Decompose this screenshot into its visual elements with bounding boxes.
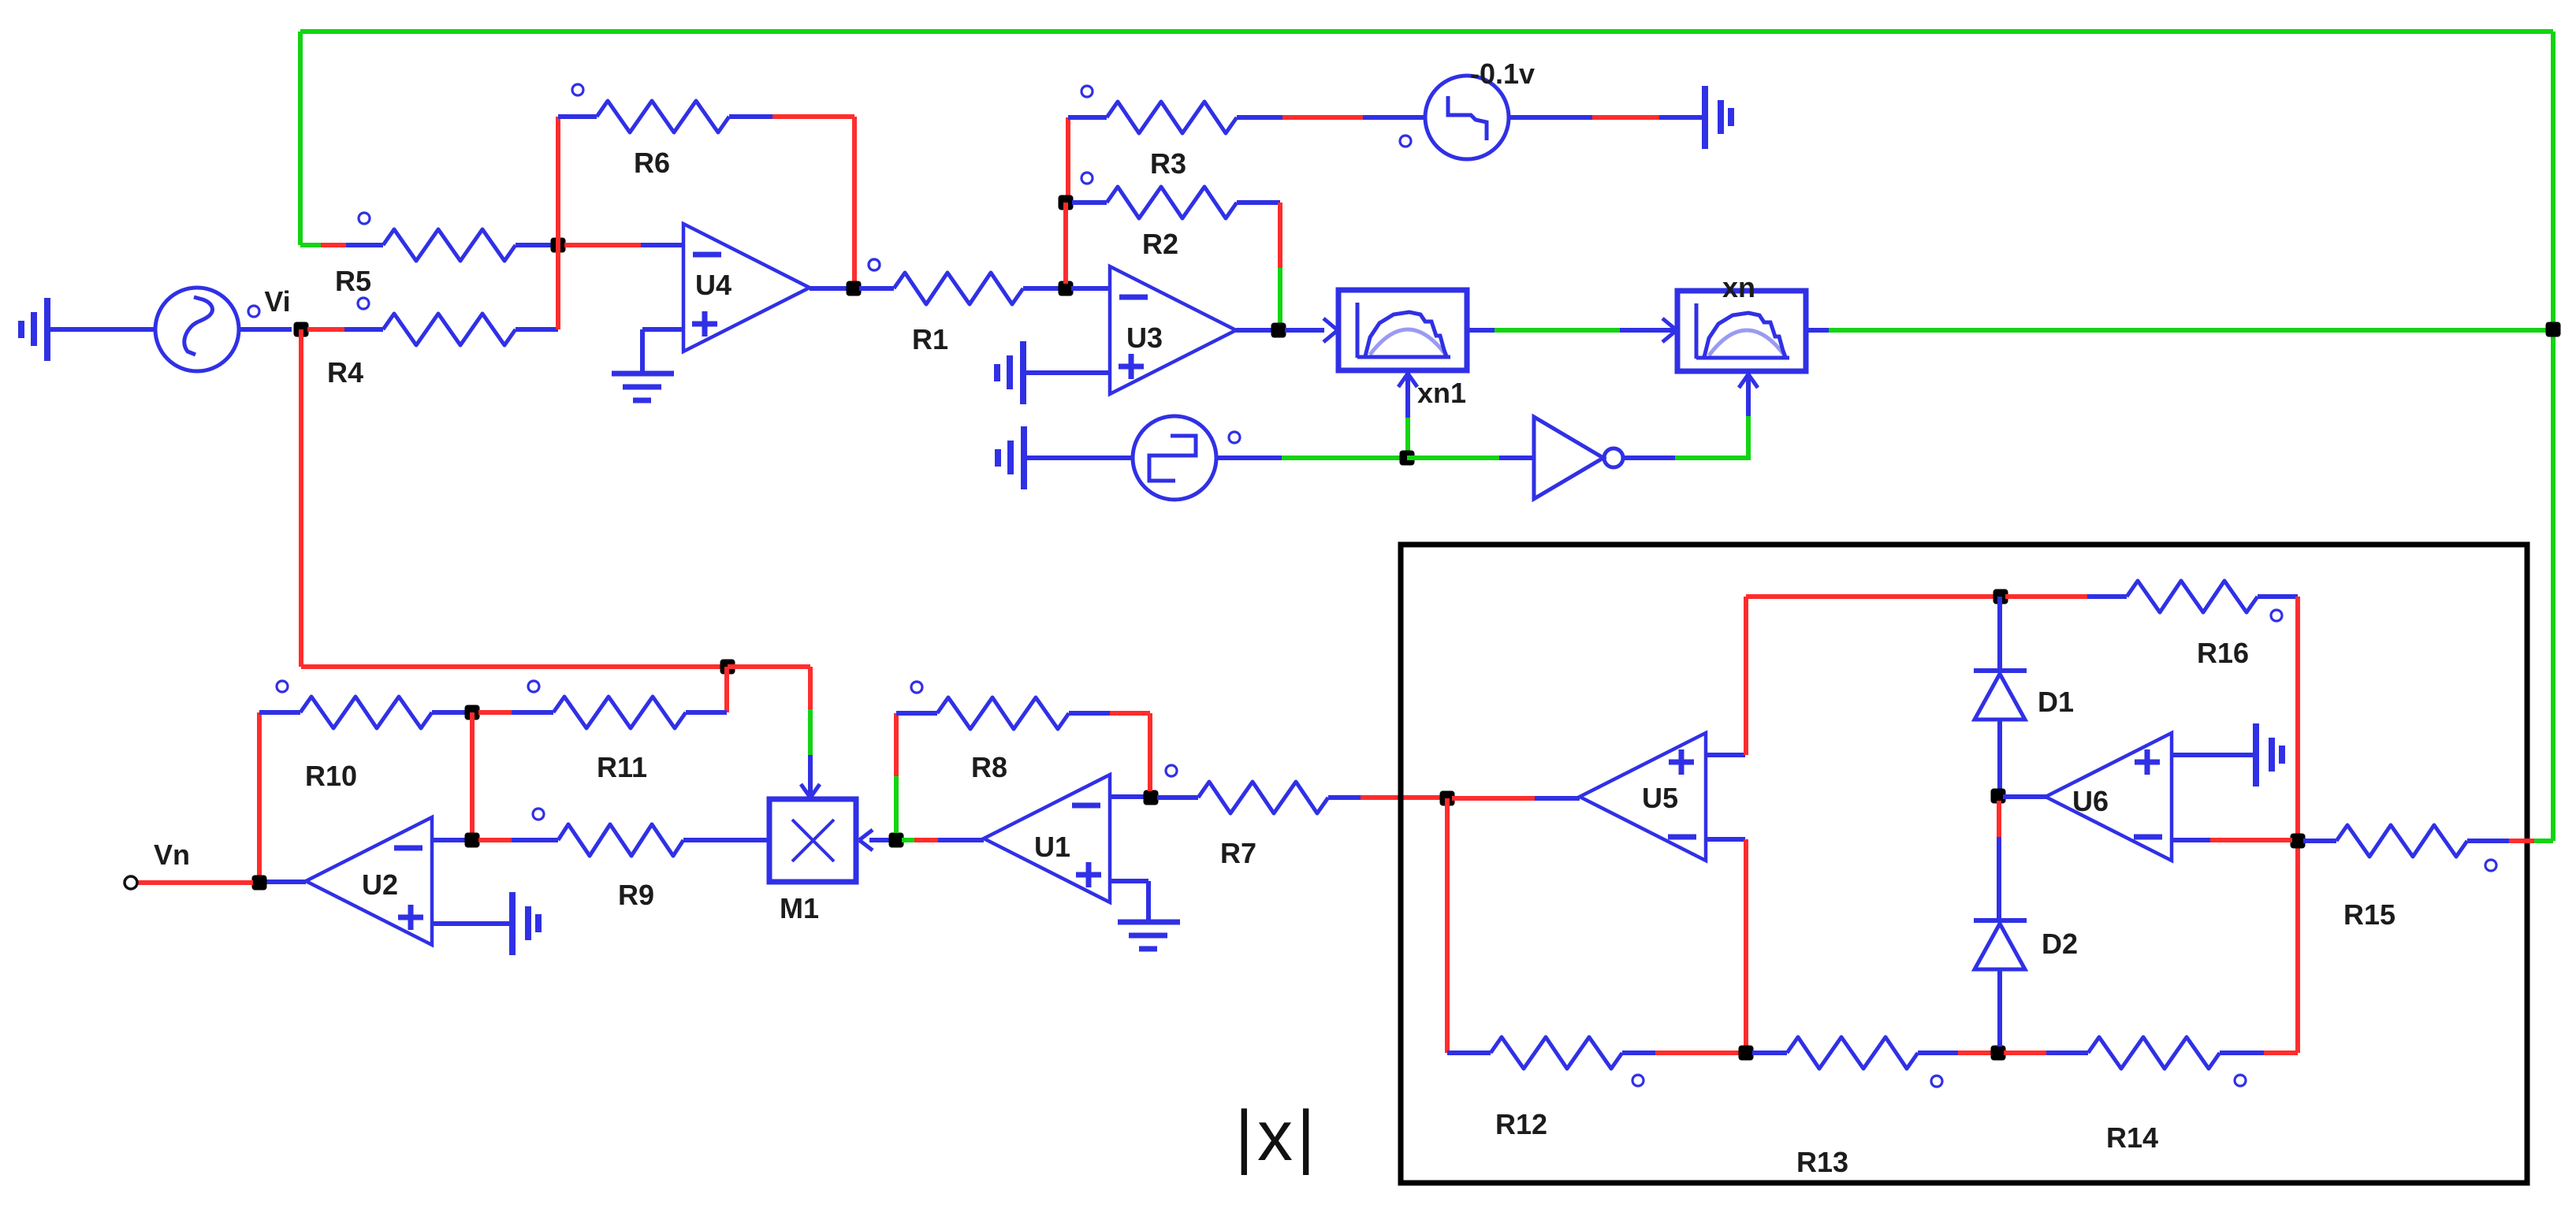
wire red Vi to R4 [307, 327, 344, 332]
ground far-left [21, 298, 47, 361]
svg-text:R9: R9 [618, 879, 654, 911]
svg-text:R10: R10 [305, 760, 357, 792]
arrow into M1 top [801, 784, 820, 798]
resistor R2 [1081, 173, 1237, 260]
wire green left vertical [298, 32, 303, 245]
wire U6 - stub [2172, 838, 2210, 842]
wire R3 right lead [1237, 115, 1282, 120]
wire red R3 to source [1282, 115, 1363, 120]
wire red U5 + to top rail [1744, 597, 1748, 755]
step source -0.1v [1400, 58, 1535, 159]
sample-hold block xn1 [1338, 290, 1467, 409]
wire inverter output stub [1622, 456, 1675, 460]
wire red right vertical R16 R14 [2295, 597, 2300, 1053]
wire red Vn [137, 880, 253, 885]
arrow into M1 right [859, 830, 873, 850]
sample-hold block xn [1677, 291, 1806, 371]
wire red R8 vertical upper [894, 713, 899, 776]
svg-text:R7: R7 [1220, 837, 1256, 869]
wire red top rail left [1746, 594, 1997, 599]
wire R15 left lead [2303, 839, 2336, 843]
wire R12 left lead [1447, 1051, 1491, 1055]
junction U2 inverting R9 [465, 833, 480, 848]
resistor R14 [2088, 1037, 2246, 1154]
terminal Vn [125, 839, 190, 889]
junction R1 U3 inverting [1059, 281, 1074, 296]
resistor R6 [572, 84, 729, 179]
wire R6 right lead [729, 114, 772, 119]
wire R11 right lead [686, 710, 727, 715]
ground U4 [612, 374, 674, 400]
wire R12 right lead [1622, 1051, 1655, 1055]
wire xn output stub [1806, 328, 1829, 333]
wire green right vertical lower [2551, 329, 2556, 841]
op-amp U3 [1110, 266, 1236, 394]
wire red R8 right vertical [1148, 713, 1152, 791]
op-amp U6 [2046, 733, 2172, 861]
wire ground to source Vi [47, 327, 154, 332]
wire U4 + to ground stem [640, 329, 645, 374]
wire red R15 out of box [2509, 839, 2534, 843]
wire red to M1 corner [728, 664, 810, 669]
wire R8 right lead [1069, 711, 1110, 716]
wire R13 right lead [1918, 1051, 1958, 1055]
ground U3 [997, 341, 1023, 404]
wire U5 - stub [1706, 837, 1745, 842]
wire U5 + stub [1706, 753, 1745, 757]
svg-text:R6: R6 [634, 147, 670, 179]
wire D2 lead [1997, 837, 2001, 920]
wire xn clock stub blue [1746, 371, 1751, 416]
wire red top rail right [2005, 594, 2087, 599]
svg-text:D1: D1 [2038, 686, 2074, 718]
wire clock right stub [1216, 456, 1282, 460]
wire U3 + input to ground [1023, 370, 1110, 375]
resistor R8 [911, 682, 1069, 783]
wire into inverter [1499, 456, 1534, 460]
ground U1 [1118, 922, 1180, 949]
AC source V1 (Vi) [155, 288, 239, 371]
wire green xn output to right rail [1829, 328, 2553, 333]
ground top-right [1705, 86, 1731, 149]
junction R10 R11 [465, 705, 480, 720]
wire red vertical R3 to R2 junction [1066, 117, 1070, 197]
wire D1 bottom [1997, 720, 2002, 791]
wire M1 right stub [869, 838, 891, 842]
wire into xn [1620, 328, 1676, 333]
svg-text:R5: R5 [335, 265, 371, 297]
wire R8 left lead [896, 711, 937, 716]
wire green xn1 clock [1405, 418, 1410, 456]
wire red R11 left [478, 710, 512, 715]
svg-text:R2: R2 [1142, 228, 1178, 260]
wire U5 apex stub [1535, 796, 1580, 801]
wire R5 right lead [516, 243, 558, 247]
wire red R12 to junction [1655, 1051, 1740, 1055]
wire U6 apex stub [2003, 794, 2047, 799]
arrow into xn1 [1323, 318, 1338, 342]
junction U4 output [847, 281, 862, 296]
arrow into xn1 bottom [1398, 374, 1417, 387]
svg-text:R3: R3 [1150, 147, 1186, 180]
wire red R5 left [321, 243, 346, 247]
diode D1 [1974, 671, 2074, 720]
wire R1 right lead [1023, 286, 1060, 291]
wire red to ground [1592, 115, 1659, 120]
wire to ground bars [1659, 115, 1705, 120]
wire R13 left lead [1752, 1051, 1787, 1055]
diode D2 [1974, 920, 2078, 969]
wire R5 left lead [346, 243, 383, 247]
resistor R16 [2127, 581, 2282, 669]
junction R11 top [720, 660, 735, 675]
wire xn1 output stub [1467, 328, 1495, 333]
wire R16 right lead [2258, 594, 2298, 599]
wire U2 output stub [266, 879, 306, 884]
wire R3 left lead [1068, 115, 1107, 120]
wire green into R5 [300, 243, 321, 247]
resistor R3 [1081, 86, 1237, 180]
wire red Vi vertical [299, 329, 303, 667]
arrow into xn [1662, 318, 1677, 342]
svg-text:xn1: xn1 [1417, 377, 1466, 409]
wire red vertical R6-R5-R4 [556, 117, 560, 329]
junction clock net [1400, 451, 1415, 466]
wire red R13 to D2 node [1958, 1051, 1993, 1055]
wire red R14 to vertical [2264, 1051, 2298, 1055]
svg-text:R4: R4 [327, 356, 363, 389]
wire R2 right lead [1237, 200, 1280, 205]
svg-text:xn: xn [1722, 271, 1755, 303]
wire R14 right lead [2220, 1051, 2264, 1055]
wire U1 + ground stem [1146, 881, 1151, 922]
junction green right rail [2546, 322, 2561, 337]
node Vi label [248, 285, 291, 318]
wire red vertical R2 junction to R1 junction [1063, 203, 1068, 284]
wire red U5 - down to R13 [1744, 839, 1748, 1053]
wire red R7 into abs box [1361, 795, 1442, 800]
resistor R1 [869, 259, 1023, 355]
wire source right lead [1509, 115, 1592, 120]
resistor R7 [1166, 765, 1328, 869]
ground U6 [2256, 723, 2282, 786]
wire source to node Vi [239, 327, 292, 332]
resistor R5 [335, 213, 516, 297]
junction R5 R6 [551, 238, 566, 253]
svg-text:U5: U5 [1642, 782, 1678, 814]
resistor R15 [2336, 825, 2496, 931]
ground U2 [512, 892, 538, 955]
wire R4 left lead [344, 327, 383, 332]
ground clock [998, 426, 1024, 489]
junction M1 U1 output [889, 833, 904, 848]
svg-text:R14: R14 [2106, 1121, 2158, 1154]
resistor R12 [1491, 1037, 1644, 1140]
abs value block border [1401, 545, 2527, 1183]
wire red D2 node to R14 [2004, 1051, 2046, 1055]
wire U6 + to ground [2172, 753, 2256, 757]
wire R16 left lead [2087, 594, 2127, 599]
clock source [1133, 416, 1240, 500]
wire red R10 left vertical [257, 712, 262, 883]
wire U3 output stub [1236, 328, 1274, 333]
svg-text:M1: M1 [780, 892, 819, 924]
junction R12 R13 [1739, 1046, 1754, 1061]
wire R7 right lead [1328, 795, 1361, 800]
wire R9 to M1 [683, 838, 769, 842]
op-amp U5 [1580, 733, 1706, 861]
wire R11 left lead [512, 710, 553, 715]
wire U4 + input [642, 327, 683, 332]
arrow into xn bottom [1739, 374, 1758, 388]
wire red R12 vertical [1445, 798, 1450, 1053]
wire xn1 clock stub blue [1405, 370, 1410, 418]
wire R7 left lead [1157, 795, 1198, 800]
wire green M1 vertical mid [808, 709, 813, 755]
wire R14 left lead [2046, 1051, 2088, 1055]
junction R13 R14 D2 [1991, 1046, 2006, 1061]
wire red D2 upper [1997, 801, 2001, 837]
resistor R13 [1787, 1037, 1942, 1178]
wire red R8 right [1110, 711, 1150, 716]
op-amp U4 [683, 224, 810, 351]
junction Vn [252, 876, 267, 891]
svg-text:D2: D2 [2042, 928, 2078, 960]
inverter U7 [1534, 417, 1623, 499]
junction D1 D2 U6 [1991, 789, 2006, 804]
wire red U6 - to junction [2210, 838, 2292, 842]
wire green right vertical upper [2551, 32, 2556, 329]
svg-text:R12: R12 [1495, 1108, 1547, 1140]
svg-text:R11: R11 [597, 751, 647, 783]
wire red junction to U5 [1452, 796, 1535, 801]
wire green clock to junction [1282, 456, 1407, 460]
junction top rail D1 [1993, 589, 2008, 604]
wire D1 top [1997, 597, 2002, 671]
wire green junction to inverter [1407, 456, 1499, 460]
svg-text:U3: U3 [1126, 322, 1163, 354]
resistor R10 [277, 681, 432, 792]
wire red to U1 output [914, 838, 938, 842]
wire R4 right lead [516, 327, 558, 332]
svg-text:R16: R16 [2197, 637, 2249, 669]
wire D2 bottom [1997, 969, 2002, 1047]
wire green junction to U1 [902, 838, 914, 842]
svg-text:R13: R13 [1796, 1146, 1848, 1178]
junction U3 output [1271, 323, 1286, 338]
wire red R2 down upper [1278, 203, 1282, 268]
wire green inverter to xn clock [1675, 456, 1748, 460]
wire R9 left lead [512, 838, 558, 842]
wire U3 output to xn1 [1285, 328, 1324, 333]
svg-text:|x|: |x| [1235, 1097, 1320, 1176]
op-amp U2 [306, 817, 432, 945]
svg-text:U1: U1 [1034, 831, 1070, 863]
wire blue M1 vertical lower [808, 755, 813, 794]
wire U2 inverting stub [432, 838, 467, 842]
wire to step source [1363, 115, 1425, 120]
resistor R11 [528, 681, 686, 783]
wire U1 + stub [1110, 879, 1148, 883]
pin marker U4 output [869, 259, 880, 270]
wire green R2 down lower [1278, 268, 1282, 330]
wire red vertical R6 to U4 output [852, 117, 857, 288]
wire R2 left lead [1072, 200, 1107, 205]
wire U4 output stub [810, 286, 848, 291]
wire red horizontal to R11 node [301, 664, 728, 669]
wire to U4 inverting input [641, 243, 683, 247]
wire U1 inverting stub [1110, 794, 1145, 799]
wire red R9 left [478, 838, 512, 842]
junction R7 U5 R12 [1440, 791, 1455, 806]
op-amp U1 [984, 775, 1110, 902]
wire green R8 vertical lower [894, 776, 899, 833]
junction U6 output R15 [2291, 834, 2306, 849]
resistor R9 [533, 809, 683, 911]
wire red R5 junction to U4 [564, 243, 641, 247]
svg-text:Vn: Vn [154, 839, 190, 871]
wire U2 + to ground [432, 921, 512, 926]
wire green xn1 to xn [1495, 328, 1620, 333]
wire red R6 to corner [772, 114, 854, 119]
wire clock ground to source [1024, 456, 1134, 460]
wire R6 left lead [558, 114, 597, 119]
junction U1 inverting R7 R8 [1144, 790, 1159, 805]
resistor R4 [327, 298, 516, 389]
svg-text:U4: U4 [695, 269, 731, 301]
wire to U3 inverting input [1071, 286, 1110, 291]
wire U1 output stub [938, 838, 984, 842]
multiplier M1 [769, 799, 856, 924]
wire R10 left lead [259, 710, 300, 715]
wire green R15 to right rail [2534, 839, 2553, 843]
wire R10 right lead [432, 710, 467, 715]
svg-text:R15: R15 [2343, 898, 2395, 931]
wire to R1 [859, 286, 894, 291]
svg-text:R1: R1 [912, 323, 948, 355]
svg-text:U2: U2 [362, 868, 398, 901]
wire green top horizontal [300, 29, 2553, 34]
svg-text:-0.1v: -0.1v [1470, 58, 1535, 90]
wire green xn clock vertical [1746, 416, 1751, 460]
junction Vi [294, 322, 309, 337]
svg-text:U6: U6 [2072, 785, 2109, 817]
wire R15 right lead [2467, 839, 2509, 843]
junction R2 left [1059, 195, 1074, 210]
wire red M1 vertical upper [808, 667, 813, 709]
wire red R10R11 node to U2 inverting [470, 712, 475, 840]
wire red R11 right vertical [724, 667, 729, 712]
svg-text:R8: R8 [971, 751, 1007, 783]
svg-text:Vi: Vi [264, 285, 290, 318]
